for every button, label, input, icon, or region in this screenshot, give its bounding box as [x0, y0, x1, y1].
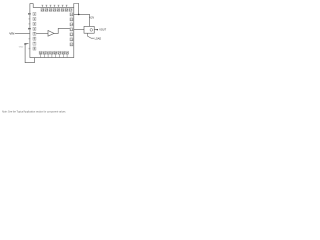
op-amp U1 chip outline with notched top-left corner [30, 4, 74, 58]
top pin numbers [41, 9, 73, 12]
pin stub T34 [62, 5, 64, 7]
pin stub T31 [50, 5, 52, 7]
right pin boxes [70, 13, 73, 46]
bottom pin numbers [39, 52, 69, 55]
pin stub L3 [29, 23, 31, 24]
wire pin7 ground return loop [25, 44, 34, 63]
top pin stubs (no-connect) [42, 5, 68, 7]
pin stub L2 [29, 18, 31, 19]
pin stub L1 [28, 13, 30, 15]
left pin numbers [34, 13, 36, 51]
wire pin16 to battery top [74, 14, 90, 26]
wire pin13 to battery left [74, 29, 84, 31]
op-amp buffer A1 [48, 31, 54, 37]
callout wire to LOAD [88, 33, 94, 38]
left pin boxes [33, 12, 36, 50]
right pin numbers [70, 13, 73, 46]
arrow at pin 7 [24, 43, 27, 45]
left pin stubs [28, 13, 30, 49]
pin stub T32 [54, 5, 56, 7]
junction dot [78, 14, 80, 16]
wire buffer output to right pin [54, 28, 70, 33]
svg-text:VIN: VIN [9, 32, 14, 36]
junction dot pin L1 [29, 13, 30, 14]
wire top-right loop [74, 4, 79, 15]
svg-text:4.2V: 4.2V [89, 16, 94, 19]
bottom pin boxes [39, 51, 68, 54]
bottom pin stubs to edge [41, 54, 68, 57]
wire pin5 to buffer input [36, 32, 48, 34]
svg-text:VOUT: VOUT [99, 28, 106, 31]
wire battery right to VOUT [94, 29, 97, 31]
junction dot pin L4 [29, 28, 30, 29]
svg-text:Note: See the Typical Applicat: Note: See the Typical Application sectio… [2, 109, 66, 113]
pin stub T33 [58, 5, 60, 7]
battery BT1 box [84, 26, 94, 33]
svg-text:GND: GND [19, 46, 24, 48]
pin stub T30 [46, 5, 48, 7]
pin stub T29 [42, 5, 44, 7]
battery cell circle [90, 29, 93, 32]
junction dot VOUT [97, 29, 98, 30]
wire VIN to pin 5 [15, 32, 30, 34]
pin stub T35 [66, 5, 68, 7]
pin stub L6 [29, 38, 31, 39]
top pin boxes [41, 8, 72, 11]
svg-text:LOAD: LOAD [95, 37, 102, 40]
pin stub L8 [29, 48, 31, 49]
pin stub L4 [28, 28, 30, 30]
